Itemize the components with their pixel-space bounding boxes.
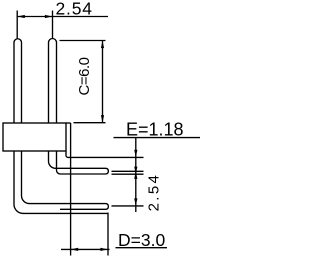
arrow D left [71,248,79,251]
pin P2 vertical (right post) [49,39,57,124]
svg-text:E=1.18: E=1.18 [126,120,184,140]
svg-text:D=3.0: D=3.0 [118,230,165,250]
arrow 2.54-top left [17,15,25,18]
node body top edge overhang [66,122,71,124]
dimension E/2.54 right: pin center ext upper [112,170,144,172]
pin P1 bend to lower horizontal pin [22,151,107,204]
svg-text:2.54: 2.54 [56,0,93,18]
wire D-dim left extension line [70,123,72,256]
dimension D: text underline [116,247,168,249]
body right edge extension to E line [66,151,144,157]
arrow C bottom [101,115,104,123]
dimension C: dimension line [102,41,104,123]
dimension C: top extension line [60,40,106,42]
dimension C: bottom extension line [74,122,106,124]
pin P1 vertical (left post) [14,39,22,123]
wire outer edge of P1 bend [14,151,108,213]
dimension 2.54 top: dimension line [17,16,108,18]
svg-text:C=6.0: C=6.0 [76,57,93,96]
dimension D: dimension line [61,248,110,250]
arrow D right [100,248,108,251]
dimension E: bottom measuring line [112,173,144,175]
dimension 2.54 right: pin center ext lower [112,205,144,207]
arrow 2.54-right bottom [134,198,137,206]
dimension E + 2.54 right: shared vertical dimension line [135,138,137,212]
body (plastic housing) [3,123,66,151]
wire lower pin bottom edge [60,208,106,210]
dimension E: text underline [114,137,201,139]
arrow 2.54-right top [134,171,137,179]
pin P1 end cap [106,204,108,210]
pin P2 end cap [106,168,108,174]
pin P2 bend to upper horizontal pin [49,151,107,168]
arrow E bottom [134,167,137,175]
arrow E top [134,150,137,158]
arrow 2.54-top right [45,15,53,18]
arrow C top [101,41,104,49]
dimension D: right extension line [107,213,109,256]
dimension 2.54 top: right extension line [52,11,54,40]
dimension 2.54 top: left extension line [16,11,18,40]
svg-text:2.54: 2.54 [146,175,163,211]
